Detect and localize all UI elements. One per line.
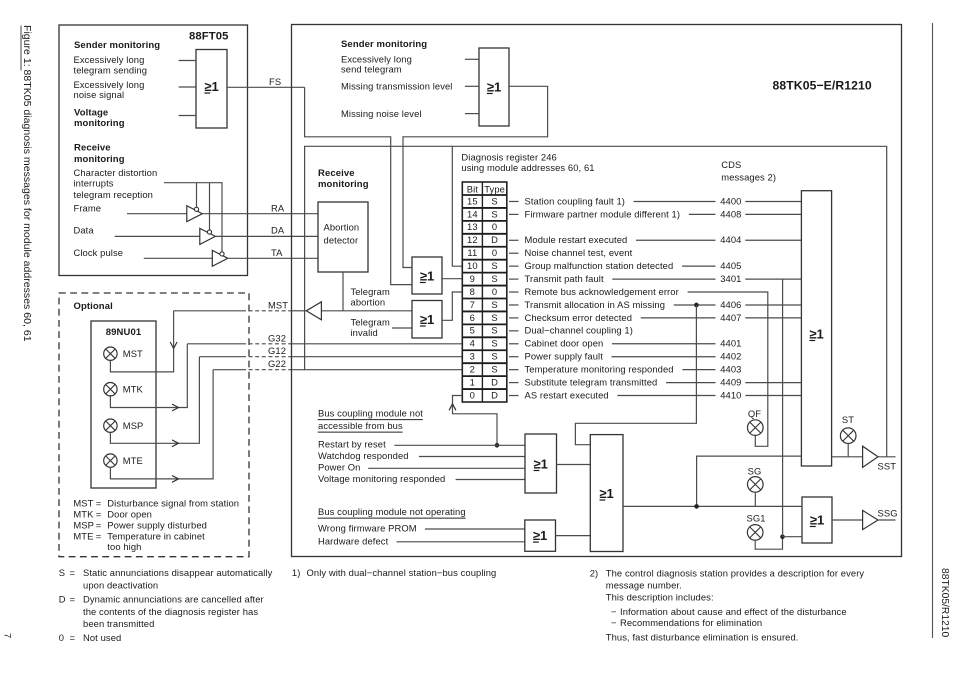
svg-text:7: 7 bbox=[2, 633, 13, 638]
doc number 88TK05/R1210 (rotated) bbox=[939, 568, 950, 638]
wire MST solid segment bbox=[174, 310, 242, 312]
wire CDS 4407 to collective gate bbox=[745, 317, 801, 319]
wire 3401 branch down to SG1/U9 input bbox=[782, 279, 784, 537]
wire G12 dashed segment bbox=[242, 356, 292, 358]
svg-text:ST: ST bbox=[842, 414, 854, 425]
stub bit 10 bbox=[509, 265, 519, 267]
inverter V1 (Frame) bbox=[187, 206, 203, 222]
svg-text:SG: SG bbox=[748, 466, 762, 477]
wire bit 2 to CDS number bbox=[682, 369, 715, 371]
svg-text:Sender monitoring: Sender monitoring bbox=[341, 39, 427, 50]
wire G22 dashed segment bbox=[242, 369, 292, 371]
svg-text:Dynamic annunciations are canc: Dynamic annunciations are cancelled afte… bbox=[83, 594, 264, 605]
or-gate U6 (not accessible) bbox=[525, 434, 557, 493]
svg-text:≥1: ≥1 bbox=[204, 79, 218, 94]
wire wrong-firmware to U7 bbox=[425, 528, 525, 530]
lamp MSP bbox=[104, 419, 117, 432]
svg-text:S: S bbox=[491, 364, 497, 375]
wire watchdog to U6 bbox=[419, 456, 525, 458]
wire U8 output up to U5 input bbox=[697, 456, 802, 506]
svg-text:3401: 3401 bbox=[720, 273, 741, 284]
stub bit 7 bbox=[509, 304, 519, 306]
underline of Figure 1: bbox=[20, 26, 22, 71]
wire input noise-signal to U1 bbox=[179, 86, 196, 88]
arrow right on MSP wire bbox=[172, 440, 179, 447]
svg-text:message number.: message number. bbox=[606, 580, 682, 591]
wire bit7 line down to U8 input bbox=[575, 305, 696, 445]
svg-text:TA: TA bbox=[271, 247, 283, 258]
lamp MTE bbox=[104, 454, 117, 467]
wire bit 12 to CDS number bbox=[636, 239, 715, 241]
svg-text:=: = bbox=[96, 530, 102, 541]
wire voltage-monitoring to U6 bbox=[456, 479, 525, 481]
stub bit 2 bbox=[509, 369, 519, 371]
driver V5 (SST) bbox=[863, 446, 878, 467]
wire G22 to register bit2 bbox=[292, 369, 463, 371]
register table grid bbox=[462, 182, 507, 402]
svg-text:4410: 4410 bbox=[720, 389, 741, 400]
wire CDS 4406 to collective gate bbox=[745, 304, 801, 306]
svg-text:−: − bbox=[611, 617, 617, 628]
svg-text:Station coupling fault 1): Station coupling fault 1) bbox=[525, 195, 625, 206]
stub bit 6 bbox=[509, 317, 519, 319]
svg-text:1: 1 bbox=[470, 376, 475, 387]
svg-text:13: 13 bbox=[467, 221, 478, 232]
svg-text:MTE: MTE bbox=[73, 530, 93, 541]
svg-text:D: D bbox=[491, 376, 498, 387]
svg-text:14: 14 bbox=[467, 208, 478, 219]
wire U7 output to U8 bbox=[556, 535, 591, 537]
wire G12 solid segment bbox=[199, 356, 242, 358]
arrow up on restart feedback wire bbox=[449, 404, 456, 411]
svg-text:0: 0 bbox=[470, 389, 475, 400]
or-gate U4 (telegram abortion/invalid) bbox=[412, 301, 442, 339]
svg-text:9: 9 bbox=[470, 273, 475, 284]
svg-text:Character distortion: Character distortion bbox=[74, 167, 158, 178]
module box 88FT05 bbox=[59, 25, 248, 276]
svg-text:S: S bbox=[491, 351, 497, 362]
lamp ST bbox=[840, 428, 856, 444]
wire U2 output to U3 upper input bbox=[403, 86, 548, 267]
svg-text:≥1: ≥1 bbox=[810, 512, 824, 527]
inverter V4 (MST driver) bbox=[306, 302, 321, 320]
stub bit 8 bbox=[509, 291, 519, 293]
lamp SG bbox=[748, 477, 764, 493]
wire ST lamp stub bbox=[847, 444, 849, 457]
stub bit 14 bbox=[509, 213, 519, 215]
or-gate U1 (sender/voltage monitoring) bbox=[196, 50, 227, 129]
svg-text:≥1: ≥1 bbox=[420, 268, 434, 283]
svg-text:interrupts: interrupts bbox=[74, 178, 114, 189]
svg-text:7: 7 bbox=[470, 299, 475, 310]
wire bit 6 to CDS number bbox=[641, 317, 716, 319]
svg-text:Module restart executed: Module restart executed bbox=[525, 234, 628, 245]
svg-text:Checksum error detected: Checksum error detected bbox=[525, 312, 633, 323]
svg-text:S: S bbox=[491, 299, 497, 310]
svg-text:88TK05/R1210: 88TK05/R1210 bbox=[939, 568, 950, 638]
stub bit 12 bbox=[509, 239, 519, 241]
svg-text:Thus, fast disturbance elimina: Thus, fast disturbance elimination is en… bbox=[606, 631, 799, 642]
svg-text:4403: 4403 bbox=[720, 364, 741, 375]
svg-text:Restart by reset: Restart by reset bbox=[318, 439, 386, 450]
svg-text:monitoring: monitoring bbox=[74, 154, 125, 165]
svg-text:Only with dual−channel station: Only with dual−channel station−bus coupl… bbox=[307, 567, 497, 578]
svg-text:MTE: MTE bbox=[123, 455, 143, 466]
wire bit8 to QF lamp bbox=[688, 292, 768, 446]
wire bit 15 to CDS number bbox=[634, 200, 716, 202]
svg-text:1): 1) bbox=[292, 567, 301, 578]
svg-text:noise signal: noise signal bbox=[74, 89, 125, 100]
svg-text:88TK05−E/R1210: 88TK05−E/R1210 bbox=[773, 79, 872, 93]
wire input missing-noise to U2 bbox=[465, 113, 479, 115]
svg-text:Dual−channel coupling 1): Dual−channel coupling 1) bbox=[525, 325, 633, 336]
svg-text:using module addresses 60, 61: using module addresses 60, 61 bbox=[461, 162, 594, 173]
svg-text:S: S bbox=[491, 195, 497, 206]
svg-text:Receive: Receive bbox=[74, 143, 111, 154]
svg-text:G22: G22 bbox=[268, 358, 286, 369]
svg-text:=: = bbox=[70, 567, 76, 578]
wire Clock input bbox=[144, 257, 213, 259]
svg-text:Sender monitoring: Sender monitoring bbox=[74, 40, 160, 51]
svg-text:D: D bbox=[491, 389, 498, 400]
wire CDS 4400 to collective gate bbox=[745, 200, 801, 202]
wire MST lamp feed bbox=[110, 311, 173, 372]
svg-text:12: 12 bbox=[467, 234, 478, 245]
svg-text:G32: G32 bbox=[268, 332, 286, 343]
wire telegram invalid to U4 bbox=[392, 327, 412, 329]
svg-text:Optional: Optional bbox=[74, 301, 113, 312]
stub bit 15 bbox=[509, 200, 519, 202]
wire MST dashed segment bbox=[242, 310, 292, 312]
svg-text:abortion: abortion bbox=[351, 296, 386, 307]
wire bit 7 to CDS number bbox=[674, 304, 716, 306]
svg-text:Wrong firmware PROM: Wrong firmware PROM bbox=[318, 523, 417, 534]
svg-text:The control diagnosis station: The control diagnosis station provides a… bbox=[606, 567, 865, 578]
svg-text:Type: Type bbox=[484, 183, 505, 194]
wire MSP to G12 riser bbox=[110, 357, 199, 444]
wire SG1 lamp hook bbox=[755, 537, 782, 550]
wire input telegram-sending to U1 bbox=[179, 60, 196, 62]
wire G12 to register bit3 bbox=[292, 356, 463, 358]
junction on bit7 wire bbox=[694, 303, 699, 308]
svg-text:4408: 4408 bbox=[720, 208, 741, 219]
annunciator module 89NU01 bbox=[91, 321, 156, 488]
svg-text:RA: RA bbox=[271, 202, 285, 213]
svg-text:4401: 4401 bbox=[720, 338, 741, 349]
or-gate U7 (not operating) bbox=[525, 520, 556, 551]
svg-text:4409: 4409 bbox=[720, 376, 741, 387]
wire hardware-defect to U7 bbox=[397, 541, 525, 543]
svg-text:S: S bbox=[59, 567, 65, 578]
arrow right on MTK wire bbox=[172, 404, 179, 411]
svg-text:MST: MST bbox=[123, 348, 143, 359]
wire SST feedback to bit10 bbox=[452, 146, 462, 266]
wire bit 10 to CDS number bbox=[682, 265, 715, 267]
page number 7 (rotated) bbox=[2, 633, 13, 638]
svg-text:0: 0 bbox=[492, 247, 497, 258]
svg-text:monitoring: monitoring bbox=[74, 118, 125, 129]
svg-text:S: S bbox=[491, 312, 497, 323]
svg-text:0: 0 bbox=[59, 632, 64, 643]
svg-text:Hardware defect: Hardware defect bbox=[318, 535, 389, 546]
svg-text:Static annunciations disappear: Static annunciations disappear automatic… bbox=[83, 567, 273, 578]
wire CDS 4410 to collective gate bbox=[745, 395, 801, 397]
wire telegram abortion from detector to U4 bbox=[343, 272, 412, 311]
wire restart-by-reset to bit0 (AS restart executed) bbox=[453, 396, 498, 446]
svg-text:Watchdog responded: Watchdog responded bbox=[318, 450, 409, 461]
svg-text:MSP: MSP bbox=[123, 420, 144, 431]
svg-text:≥1: ≥1 bbox=[534, 456, 548, 471]
svg-text:DA: DA bbox=[271, 225, 285, 236]
svg-text:MST: MST bbox=[268, 299, 288, 310]
junction SG1 input bbox=[780, 534, 785, 539]
svg-text:2): 2) bbox=[590, 567, 599, 578]
wire SSG output bbox=[878, 519, 896, 521]
svg-text:4405: 4405 bbox=[720, 260, 741, 271]
svg-text:S: S bbox=[491, 208, 497, 219]
svg-text:3: 3 bbox=[470, 351, 475, 362]
junction U8 output bbox=[694, 504, 699, 509]
wire U6 output to U8 bbox=[557, 464, 591, 466]
svg-text:11: 11 bbox=[467, 247, 477, 258]
svg-text:=: = bbox=[96, 509, 102, 520]
svg-text:=: = bbox=[70, 632, 76, 643]
svg-text:monitoring: monitoring bbox=[318, 179, 369, 190]
arrow right on MTE wire bbox=[172, 476, 179, 483]
svg-text:SST: SST bbox=[878, 460, 897, 471]
svg-text:FS: FS bbox=[269, 76, 281, 87]
svg-text:Temperature in cabinet: Temperature in cabinet bbox=[107, 530, 205, 541]
svg-text:Disturbance signal from statio: Disturbance signal from station bbox=[107, 498, 239, 509]
svg-text:MTK: MTK bbox=[73, 509, 94, 520]
svg-text:4400: 4400 bbox=[720, 195, 741, 206]
wire SST feedback / inner box outline bbox=[305, 146, 887, 457]
optional group box bbox=[59, 293, 249, 557]
wire G32 to register bit4 bbox=[292, 343, 463, 345]
svg-text:Power supply disturbed: Power supply disturbed bbox=[107, 519, 207, 530]
right column divider rule bbox=[932, 23, 934, 638]
svg-text:6: 6 bbox=[470, 312, 475, 323]
svg-text:Temperature monitoring respond: Temperature monitoring responded bbox=[525, 364, 674, 375]
driver V6 (SSG) bbox=[863, 510, 878, 529]
wire CDS 3401 to collective gate bbox=[745, 278, 801, 280]
svg-text:S: S bbox=[491, 325, 497, 336]
svg-text:Bus coupling module not operat: Bus coupling module not operating bbox=[318, 506, 466, 517]
svg-text:Information about cause and ef: Information about cause and effect of th… bbox=[620, 606, 847, 617]
svg-text:Cabinet door open: Cabinet door open bbox=[525, 338, 604, 349]
svg-text:Not used: Not used bbox=[83, 632, 121, 643]
wire branch to data inverter bubble bbox=[209, 183, 211, 230]
wire bit 0 to CDS number bbox=[617, 395, 715, 397]
svg-text:Power supply fault: Power supply fault bbox=[525, 351, 604, 362]
svg-text:Abortion: Abortion bbox=[324, 221, 360, 232]
stub bit 5 bbox=[509, 330, 519, 332]
junction restart wire bbox=[495, 443, 500, 448]
stub bit 3 bbox=[509, 356, 519, 358]
svg-text:the contents of the diagnosis: the contents of the diagnosis register h… bbox=[83, 606, 258, 617]
wire distortion-interrupt to inverter bubbles bbox=[164, 183, 222, 252]
svg-text:Frame: Frame bbox=[74, 202, 102, 213]
svg-text:Missing noise level: Missing noise level bbox=[341, 108, 422, 119]
svg-text:2: 2 bbox=[470, 364, 475, 375]
arrow down on MST wire bbox=[170, 342, 177, 349]
svg-text:Substitute telegram transmitte: Substitute telegram transmitted bbox=[525, 376, 658, 387]
svg-text:invalid: invalid bbox=[351, 327, 378, 338]
inhibit bubble of V3 bbox=[220, 252, 224, 256]
svg-text:≥1: ≥1 bbox=[599, 486, 613, 501]
module box 88TK05-E/R1210 bbox=[292, 25, 902, 557]
stub bit 11 bbox=[509, 252, 519, 254]
svg-text:too high: too high bbox=[107, 541, 141, 552]
svg-text:Voltage: Voltage bbox=[74, 108, 108, 119]
inverter V2 (Data) bbox=[200, 228, 216, 244]
svg-text:telegram sending: telegram sending bbox=[74, 64, 148, 75]
wire U4 output to bit8 bbox=[442, 292, 462, 320]
wire Frame input bbox=[127, 213, 187, 215]
or-gate U5 (collective fault) bbox=[801, 191, 831, 466]
wire G32 solid segment bbox=[187, 343, 242, 345]
wire U8 output bbox=[623, 505, 802, 507]
svg-text:Diagnosis register 246: Diagnosis register 246 bbox=[461, 151, 556, 162]
svg-text:Voltage monitoring responded: Voltage monitoring responded bbox=[318, 473, 445, 484]
svg-text:Recommendations for eliminatio: Recommendations for elimination bbox=[620, 617, 762, 628]
svg-text:MTK: MTK bbox=[123, 384, 144, 395]
svg-text:detector: detector bbox=[324, 235, 359, 246]
or-gate U2 (sender monitoring TK) bbox=[479, 48, 509, 126]
svg-text:Bus coupling module not: Bus coupling module not bbox=[318, 408, 423, 419]
stub bit 1 bbox=[509, 382, 519, 384]
svg-text:AS restart executed: AS restart executed bbox=[525, 389, 609, 400]
svg-text:MSP: MSP bbox=[73, 519, 94, 530]
wire telegram abortion to MST inverter bbox=[321, 310, 343, 312]
svg-text:S: S bbox=[491, 260, 497, 271]
svg-text:Door open: Door open bbox=[107, 509, 152, 520]
inhibit bubble of V2 bbox=[207, 230, 211, 234]
stub bit 0 bbox=[509, 395, 519, 397]
wire bit 14 to CDS number bbox=[689, 213, 716, 215]
wire branch to frame inverter bubble bbox=[196, 183, 198, 208]
svg-text:MST: MST bbox=[73, 498, 93, 509]
svg-text:≥1: ≥1 bbox=[420, 312, 434, 327]
abortion detector block bbox=[318, 202, 368, 272]
svg-text:messages 2): messages 2) bbox=[721, 171, 776, 182]
svg-text:D: D bbox=[491, 234, 498, 245]
wire MST inside box bbox=[292, 310, 307, 312]
wire SG lamp stub bbox=[754, 492, 756, 506]
svg-text:15: 15 bbox=[467, 195, 478, 206]
lamp SG1 bbox=[747, 525, 763, 541]
svg-text:Bit: Bit bbox=[467, 183, 479, 194]
lamp MST bbox=[104, 347, 117, 360]
svg-text:≥1: ≥1 bbox=[487, 79, 501, 94]
wire G22 solid segment bbox=[213, 369, 242, 371]
svg-text:D: D bbox=[59, 594, 66, 605]
svg-text:Power On: Power On bbox=[318, 462, 360, 473]
figure caption (rotated): Figure 1 bbox=[21, 25, 33, 342]
svg-text:=: = bbox=[96, 498, 102, 509]
svg-text:Clock pulse: Clock pulse bbox=[74, 247, 124, 258]
svg-text:QF: QF bbox=[748, 408, 761, 419]
stub bit 4 bbox=[509, 343, 519, 345]
wire DA from V2 to abortion detector bbox=[215, 235, 318, 237]
wire U3 output to bit9 bbox=[442, 278, 462, 280]
wire U5 output (SST) bbox=[832, 456, 896, 458]
svg-text:Group malfunction station dete: Group malfunction station detected bbox=[525, 260, 674, 271]
svg-text:4406: 4406 bbox=[720, 299, 741, 310]
svg-text:0: 0 bbox=[492, 286, 497, 297]
svg-text:≥1: ≥1 bbox=[533, 528, 547, 543]
or-gate U9 (SSG) bbox=[802, 497, 832, 543]
stub bit 9 bbox=[509, 278, 519, 280]
svg-text:CDS: CDS bbox=[721, 159, 741, 170]
svg-text:upon deactivation: upon deactivation bbox=[83, 580, 158, 591]
wire CDS 4409 to collective gate bbox=[745, 382, 801, 384]
wire CDS 4404 to collective gate bbox=[745, 239, 801, 241]
wire to U9 lower input bbox=[783, 536, 803, 538]
svg-text:G12: G12 bbox=[268, 345, 286, 356]
wire input voltage to U1 bbox=[179, 115, 196, 117]
svg-text:This description includes:: This description includes: bbox=[606, 592, 714, 603]
wire U9 output to SSG driver bbox=[832, 519, 863, 521]
wire RA from V1 to abortion detector bbox=[202, 213, 318, 215]
svg-text:Noise channel test, event: Noise channel test, event bbox=[525, 247, 633, 258]
wire input missing-transmission to U2 bbox=[465, 85, 479, 87]
svg-text:0: 0 bbox=[492, 221, 497, 232]
wire power-on to U6 bbox=[368, 467, 525, 469]
wire FS output of U1 bbox=[227, 86, 305, 88]
svg-text:88FT05: 88FT05 bbox=[189, 31, 229, 43]
or-gate U3 (transmit path fault) bbox=[412, 257, 442, 294]
svg-text:Receive: Receive bbox=[318, 168, 355, 179]
wire MTK to G32 riser bbox=[110, 344, 187, 408]
svg-text:8: 8 bbox=[470, 286, 475, 297]
svg-text:=: = bbox=[96, 519, 102, 530]
wire bit 9 to CDS number bbox=[612, 278, 715, 280]
svg-text:Missing transmission level: Missing transmission level bbox=[341, 80, 453, 91]
wire TA from V3 to abortion detector bbox=[228, 257, 318, 259]
wire bit 1 to CDS number bbox=[666, 382, 715, 384]
svg-text:4404: 4404 bbox=[720, 234, 741, 245]
wire MTE to G22 riser bbox=[110, 370, 213, 479]
svg-text:Remote bus acknowledgement err: Remote bus acknowledgement error bbox=[525, 286, 679, 297]
svg-text:4407: 4407 bbox=[720, 312, 741, 323]
svg-text:Transmit allocation in AS miss: Transmit allocation in AS missing bbox=[525, 299, 666, 310]
wire restart-by-reset to U6 bbox=[394, 444, 525, 446]
svg-text:Data: Data bbox=[74, 225, 95, 236]
wire bit 3 to CDS number bbox=[612, 356, 716, 358]
lamp QF bbox=[748, 420, 764, 436]
svg-text:Transmit path fault: Transmit path fault bbox=[525, 273, 604, 284]
lamp MTK bbox=[104, 383, 117, 396]
wire input send-telegram to U2 bbox=[465, 58, 479, 60]
wire bit 4 to CDS number bbox=[612, 343, 716, 345]
inverter V3 (Clock) bbox=[212, 250, 228, 266]
wire CDS 4408 to collective gate bbox=[745, 213, 801, 215]
svg-text:Firmware partner module differ: Firmware partner module different 1) bbox=[525, 208, 681, 219]
svg-text:been transmitted: been transmitted bbox=[83, 618, 154, 629]
svg-text:S: S bbox=[491, 273, 497, 284]
svg-text:4: 4 bbox=[470, 338, 475, 349]
svg-text:SSG: SSG bbox=[878, 508, 898, 519]
svg-text:10: 10 bbox=[467, 260, 478, 271]
svg-text:≥1: ≥1 bbox=[809, 326, 823, 341]
wire Data input bbox=[115, 235, 200, 237]
svg-text:−: − bbox=[611, 606, 617, 617]
svg-text:accessible from bus: accessible from bus bbox=[318, 420, 403, 431]
svg-text:S: S bbox=[491, 338, 497, 349]
wire FS to U3 lower input bbox=[305, 87, 412, 284]
svg-text:5: 5 bbox=[470, 325, 475, 336]
